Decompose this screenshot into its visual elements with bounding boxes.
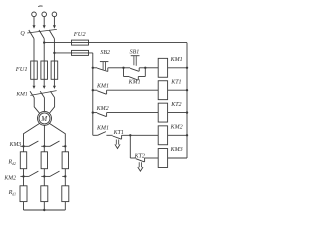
svg-text:KM1: KM1 <box>15 91 28 97</box>
terminal L3 <box>52 12 57 17</box>
svg-text:Rd2: Rd2 <box>7 158 16 165</box>
wire to coil KM3 <box>145 157 159 159</box>
wire coil KT1 to rail <box>168 89 187 91</box>
wire coil KM1 to rail <box>168 67 187 69</box>
wire rung1 mid <box>108 67 124 69</box>
svg-text:FU2: FU2 <box>73 31 87 38</box>
timed contact KT1 <box>113 135 122 148</box>
contact KM2 rung3 <box>93 113 107 117</box>
contactor KM1 main arrow 3 <box>53 86 56 89</box>
svg-text:KT2: KT2 <box>170 102 181 108</box>
contactor KM2 contact 1 <box>24 171 45 176</box>
contactor KM1 main blade 1 <box>30 91 34 97</box>
contactor KM3 row stub <box>20 145 23 147</box>
node rung2 left <box>92 89 94 91</box>
arrow L1 <box>33 25 36 28</box>
wire coil KT2 to rail <box>168 112 187 114</box>
svg-text:KM3: KM3 <box>170 147 183 153</box>
node star point <box>43 209 45 211</box>
svg-text:KM2: KM2 <box>170 125 183 131</box>
wire motor to rotor left <box>24 123 40 146</box>
contact KM1 rung2 <box>93 90 107 94</box>
contactor KM1 main blade 2 <box>40 91 44 97</box>
terminal L2 <box>42 12 47 17</box>
coil KT1 <box>158 81 167 100</box>
wire R1 bottom leads <box>24 202 66 210</box>
resistor R2 body 3 <box>62 152 68 169</box>
wire to motor right <box>49 98 54 114</box>
wire coil KM2 to rail <box>168 134 187 136</box>
resistor R1 body 3 <box>62 186 69 202</box>
pushbutton SB1 <box>130 56 139 72</box>
wire R1 top leads <box>24 176 66 185</box>
fuse FU2 body 2 <box>72 50 89 55</box>
contactor KM1 main arrow 2 <box>43 86 46 89</box>
contactor KM1 main arrow 1 <box>33 86 36 89</box>
wire left rail <box>92 53 94 135</box>
contact KM1 selfhold branch <box>124 68 146 80</box>
node rung3 left <box>92 111 94 113</box>
svg-text:KM1: KM1 <box>96 126 109 132</box>
node KM2 col1 <box>22 175 24 177</box>
wire branch down <box>129 135 131 158</box>
switch Q blade 1 <box>29 30 34 39</box>
node control tap C <box>53 52 55 54</box>
contactor KM1 linkage <box>30 91 56 96</box>
svg-text:KT2: KT2 <box>134 154 145 160</box>
wire phase B vertical <box>43 39 45 86</box>
wire L3 drop <box>53 17 55 26</box>
wire to motor mid <box>43 98 45 112</box>
svg-text:KM1: KM1 <box>128 80 141 86</box>
node KM2 col3 <box>64 175 66 177</box>
wire rung4 to coil <box>122 134 159 136</box>
node rung1 left <box>92 67 94 69</box>
wire to SB1 <box>124 67 131 69</box>
svg-text:KM2: KM2 <box>96 106 109 112</box>
contactor KM2 row stub <box>20 175 23 177</box>
wire after SB1 <box>139 67 145 69</box>
svg-text:KM1: KM1 <box>96 84 109 90</box>
svg-text:Rd1: Rd1 <box>8 189 17 196</box>
fuse FU1 body 1 <box>31 61 38 79</box>
svg-text:KM3: KM3 <box>9 142 22 148</box>
contactor KM2 contact 2 <box>44 171 65 176</box>
node rail KT2 <box>186 111 188 113</box>
switch Q blade 2 <box>39 30 44 39</box>
coil KT2 <box>158 103 167 122</box>
node SB1 right <box>144 67 146 69</box>
wire rung3 to coil <box>107 112 159 114</box>
wire rung1 to coil <box>145 67 158 69</box>
switch Q blade 3 <box>49 30 54 39</box>
node rail KM2 <box>186 134 188 136</box>
wire phase C vertical <box>53 39 55 86</box>
node KM3 col2 <box>43 145 45 147</box>
timed contact KT2 <box>136 158 145 171</box>
wire R2 bottom leads <box>24 169 66 177</box>
terminal L1 <box>32 12 37 17</box>
pushbutton SB2 <box>97 62 108 72</box>
wire branch lead <box>130 157 136 159</box>
fuse FU1 body 2 <box>41 61 48 79</box>
wire L2 drop <box>43 17 45 26</box>
coil KM1 <box>158 58 167 77</box>
arrow L3 <box>53 25 56 28</box>
wire control second line <box>54 52 92 54</box>
contact KM1 rung4 <box>93 132 113 136</box>
wire L1 drop <box>33 17 35 26</box>
wire R2 top leads <box>24 146 66 152</box>
node control tap B <box>43 41 45 43</box>
svg-text:Q: Q <box>20 31 25 37</box>
wire right rail <box>186 43 188 158</box>
node rail KM1 <box>186 67 188 69</box>
fuse FU2 body 1 <box>72 40 89 45</box>
wire motor to rotor right <box>49 123 65 146</box>
svg-text:KT1: KT1 <box>170 79 181 85</box>
node rail KT1 <box>186 89 188 91</box>
wire phase A vertical <box>33 39 35 86</box>
coil KM2 <box>158 126 167 145</box>
resistor R2 body 1 <box>20 152 26 169</box>
node KM3 col1 <box>22 145 24 147</box>
wire coil KM3 to rail <box>168 157 187 159</box>
svg-text:KM2: KM2 <box>3 176 16 182</box>
contactor KM1 main blade 3 <box>50 91 54 97</box>
wire star bus <box>24 209 66 211</box>
wire rung2 to coil <box>107 89 159 91</box>
resistor R2 body 2 <box>41 152 47 169</box>
svg-text:KM1: KM1 <box>170 57 183 63</box>
arrow L2 <box>43 25 46 28</box>
wire to motor left <box>34 98 40 114</box>
svg-text:FU1: FU1 <box>15 66 28 73</box>
node KM2 col2 <box>43 175 45 177</box>
svg-text:M: M <box>40 115 48 123</box>
wire motor to rotor mid <box>43 125 45 146</box>
node rung4 branch <box>129 134 131 136</box>
node SB1 left <box>122 67 124 69</box>
coil KM3 <box>158 149 167 168</box>
motor M <box>38 111 52 125</box>
switch Q linkage <box>27 29 57 33</box>
wire control top line <box>44 42 187 44</box>
AC supply tilde mark <box>38 5 42 8</box>
node KM3 col3 <box>64 145 66 147</box>
fuse FU1 body 3 <box>51 61 58 79</box>
contactor KM3 contact 1 <box>24 141 45 146</box>
contactor KM3 contact 2 <box>44 141 65 146</box>
svg-text:SB1: SB1 <box>130 49 140 55</box>
resistor R1 body 2 <box>41 186 48 202</box>
svg-text:SB2: SB2 <box>100 50 110 56</box>
resistor R1 body 1 <box>20 186 27 202</box>
wire rung1 lead <box>93 67 98 69</box>
